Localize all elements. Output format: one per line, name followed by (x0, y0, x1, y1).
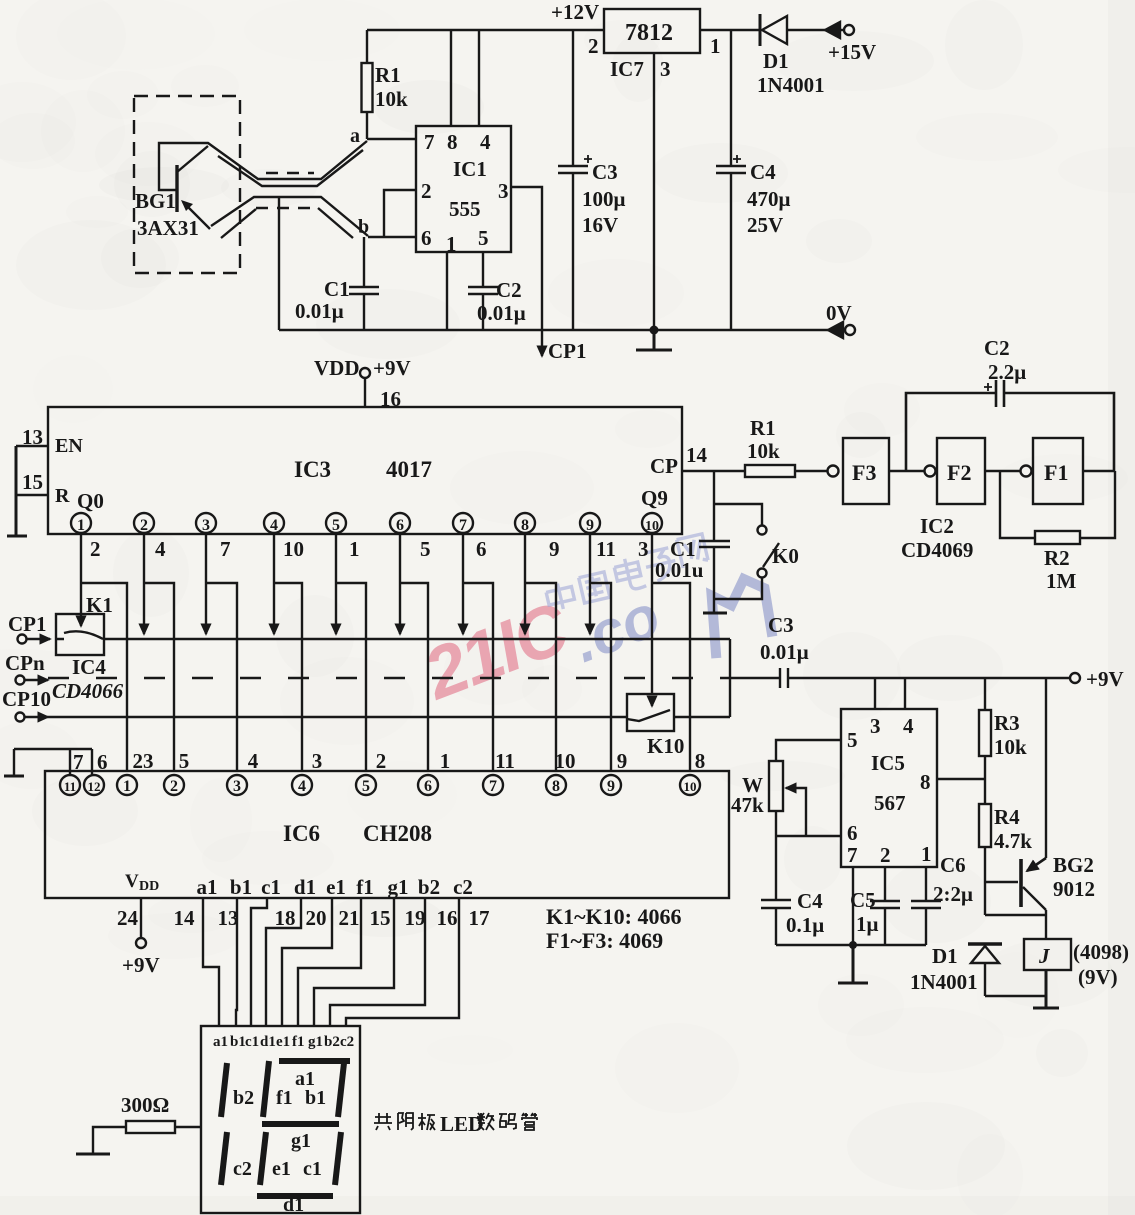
svg-text:IC2: IC2 (920, 514, 954, 538)
relay J (1024, 939, 1071, 970)
capacitor C1 0.01u (349, 237, 379, 330)
svg-text:F2: F2 (947, 460, 971, 485)
svg-text:10: 10 (283, 537, 304, 561)
terminal CPn (16, 676, 25, 685)
svg-text:10: 10 (645, 519, 659, 534)
svg-text:13: 13 (218, 906, 239, 930)
transistor BG1 symbol (175, 165, 178, 212)
svg-text:8: 8 (521, 517, 529, 534)
svg-text:2.2μ: 2.2μ (988, 360, 1026, 384)
svg-text:7812: 7812 (625, 20, 673, 46)
wires Q outputs to switches and CH208 (80, 533, 82, 619)
wire CP pin14 (682, 470, 745, 472)
inverter F2 (925, 466, 936, 477)
svg-text:g1: g1 (388, 875, 409, 899)
svg-text:3: 3 (233, 778, 241, 795)
svg-text:b1: b1 (230, 875, 252, 899)
svg-text:2: 2 (880, 843, 891, 867)
svg-text:2:2μ: 2:2μ (933, 882, 973, 906)
LED display box (201, 1026, 360, 1213)
segment b2 (221, 1063, 227, 1117)
svg-text:3: 3 (638, 537, 649, 561)
svg-text:0.01μ: 0.01μ (760, 640, 809, 664)
VDD pin 24 terminal +9V (140, 898, 142, 938)
segment e1 (260, 1132, 266, 1185)
svg-text:10k: 10k (747, 439, 780, 463)
capacitor C5 1u (870, 867, 900, 945)
ground (76, 1153, 110, 1156)
svg-text:+9V: +9V (373, 356, 411, 380)
svg-text:a: a (350, 125, 360, 147)
svg-text:CH208: CH208 (363, 821, 432, 846)
switch K1 box (IC4 CD4066) (56, 614, 104, 655)
svg-text:4: 4 (480, 130, 491, 154)
capacitor C3 100u 16V electrolytic (558, 30, 588, 330)
svg-text:C3: C3 (768, 613, 794, 637)
ground bracket pins 7 6 (14, 749, 92, 775)
terminal 0V (828, 322, 843, 338)
watermark 中国电子网 lavender (541, 534, 711, 612)
svg-text:7: 7 (847, 843, 858, 867)
svg-text:4: 4 (155, 537, 166, 561)
capacitor C4 470u 25V electrolytic (716, 30, 746, 330)
svg-text:567: 567 (874, 791, 906, 815)
svg-text:1: 1 (710, 34, 721, 58)
svg-text:1μ: 1μ (856, 912, 879, 936)
svg-text:4017: 4017 (386, 457, 432, 482)
svg-text:15: 15 (22, 470, 43, 494)
svg-text:10k: 10k (994, 735, 1027, 759)
svg-text:25V: 25V (747, 213, 783, 237)
wire pin8 (937, 778, 985, 780)
IC6 input pin circles (60, 775, 80, 795)
svg-text:1: 1 (921, 842, 932, 866)
svg-text:IC3: IC3 (294, 457, 331, 482)
IC3 output pin circles Q0-Q9 (71, 513, 91, 533)
svg-text:DD: DD (139, 879, 159, 894)
svg-text:J: J (1038, 944, 1051, 968)
segment g1 (262, 1121, 339, 1127)
svg-text:7: 7 (489, 778, 497, 795)
IC6 CH208 box (45, 771, 729, 898)
svg-text:C2: C2 (496, 278, 522, 302)
svg-text:0.01μ: 0.01μ (295, 299, 344, 323)
wire pin8 to +12V (450, 30, 452, 126)
svg-text:2: 2 (90, 537, 101, 561)
svg-text:a1: a1 (197, 875, 218, 899)
svg-text:1M: 1M (1046, 569, 1077, 593)
svg-text:2: 2 (588, 34, 599, 58)
svg-text:BG2: BG2 (1053, 853, 1094, 877)
svg-text:3: 3 (660, 57, 671, 81)
svg-text:d1: d1 (260, 1034, 276, 1050)
wire +12V top rail (367, 29, 604, 31)
segment d1 (257, 1193, 333, 1199)
svg-text:1N4001: 1N4001 (757, 73, 825, 97)
wire pin3 ground (653, 53, 655, 330)
svg-text:16: 16 (437, 906, 458, 930)
op-amp U1 IC1 555 timer box (416, 126, 511, 252)
svg-text:(9V): (9V) (1078, 965, 1118, 989)
svg-text:1N4001: 1N4001 (910, 970, 978, 994)
svg-text:7: 7 (73, 750, 84, 774)
svg-text:R: R (55, 485, 70, 507)
svg-text:5: 5 (847, 728, 858, 752)
svg-text:b2: b2 (324, 1034, 340, 1050)
svg-text:CD4066: CD4066 (52, 679, 124, 703)
svg-text:1: 1 (123, 778, 131, 795)
resistor R2 1M feedback (1000, 471, 1115, 538)
svg-text:f1: f1 (276, 1087, 293, 1109)
transistor Q BG1 3AX31 dashed probe box (134, 96, 240, 273)
inverter F3 (828, 466, 839, 477)
segment b1 (338, 1063, 344, 1117)
svg-text:11: 11 (64, 779, 76, 794)
svg-text:V: V (125, 871, 139, 892)
Chinese note: common-cathode LED digital display (374, 1112, 537, 1136)
svg-text:b1: b1 (230, 1034, 246, 1050)
svg-text:555: 555 (449, 197, 481, 221)
svg-text:9: 9 (549, 537, 560, 561)
svg-text:IC7: IC7 (610, 57, 644, 81)
svg-text:CP1: CP1 (8, 612, 47, 636)
svg-text:+9V: +9V (122, 953, 160, 977)
svg-text:e1: e1 (276, 1034, 290, 1050)
svg-text:R2: R2 (1044, 546, 1070, 570)
svg-text:47k: 47k (731, 793, 764, 817)
svg-text:1: 1 (349, 537, 360, 561)
svg-text:21: 21 (339, 906, 360, 930)
svg-text:16V: 16V (582, 213, 618, 237)
wire pin6 (776, 835, 841, 837)
svg-text:CPn: CPn (5, 651, 45, 675)
capacitor C3 0.01u coupling (735, 668, 1070, 688)
terminal CP1 (18, 635, 27, 644)
wire R4 to BG2 base (985, 881, 1018, 883)
wire cable pair to a (159, 141, 367, 190)
svg-text:d1: d1 (294, 875, 316, 899)
svg-text:12: 12 (88, 779, 101, 794)
transistor BG2 9012 (1019, 859, 1023, 907)
svg-text:3AX31: 3AX31 (137, 216, 199, 240)
capacitor C4 0.1u (761, 900, 791, 945)
svg-text:19: 19 (405, 906, 426, 930)
svg-text:5: 5 (332, 517, 340, 534)
svg-text:c1: c1 (245, 1034, 259, 1050)
svg-text:c2: c2 (340, 1034, 354, 1050)
wire pin7 (852, 867, 854, 945)
terminal +15V (825, 22, 840, 38)
svg-text:4.7k: 4.7k (994, 829, 1032, 853)
svg-text:C4: C4 (750, 160, 776, 184)
svg-text:18: 18 (275, 906, 296, 930)
svg-text:R1: R1 (750, 416, 776, 440)
svg-text:6: 6 (421, 226, 432, 250)
svg-text:23: 23 (133, 749, 154, 773)
resistor R4 4.7k (984, 779, 986, 882)
svg-text:IC4: IC4 (72, 655, 106, 679)
svg-text:e1: e1 (272, 1158, 291, 1180)
svg-text:K1: K1 (86, 593, 113, 617)
svg-text:g1: g1 (308, 1034, 323, 1050)
svg-text:Q0: Q0 (77, 489, 104, 513)
svg-text:7: 7 (220, 537, 231, 561)
svg-text:24: 24 (117, 906, 139, 930)
wire analog ground rail (776, 944, 926, 946)
svg-text:F3: F3 (852, 460, 876, 485)
svg-text:CD4069: CD4069 (901, 538, 973, 562)
svg-text:100μ: 100μ (582, 187, 626, 211)
svg-text:1: 1 (77, 517, 85, 534)
svg-text:D1: D1 (763, 49, 789, 73)
svg-text:0.01u: 0.01u (655, 558, 704, 582)
svg-text:6: 6 (97, 750, 108, 774)
svg-text:4: 4 (903, 714, 914, 738)
regulator IC7 7812 (604, 9, 700, 53)
svg-text:c1: c1 (261, 875, 281, 899)
svg-text:K0: K0 (772, 544, 799, 568)
switch K0 (714, 504, 762, 525)
ground (838, 945, 868, 983)
inverter F1 (1021, 466, 1032, 477)
wire 7812 out (700, 29, 760, 31)
diode D1 1N4001 (759, 14, 762, 46)
terminal CP10 (16, 713, 25, 722)
capacitor C1 0.01u on CP (699, 471, 730, 599)
resistor R3 10k (984, 678, 986, 779)
svg-text:R1: R1 (375, 63, 401, 87)
ground (636, 330, 672, 350)
segment c2 (221, 1132, 227, 1185)
svg-text:IC6: IC6 (283, 821, 320, 846)
svg-text:20: 20 (306, 906, 327, 930)
svg-text:C2: C2 (984, 336, 1010, 360)
terminal +9V right (1070, 673, 1080, 683)
svg-text:D1: D1 (932, 944, 958, 968)
svg-text:CP1: CP1 (548, 339, 587, 363)
svg-text:EN: EN (55, 435, 83, 457)
svg-text:16: 16 (380, 387, 401, 411)
svg-text:5: 5 (478, 226, 489, 250)
IC3 4017 box (48, 407, 682, 534)
svg-text:2: 2 (140, 517, 148, 534)
wire relay to ground (1033, 970, 1059, 1008)
svg-text:4: 4 (270, 517, 278, 534)
svg-text:17: 17 (469, 906, 490, 930)
svg-text:14: 14 (174, 906, 196, 930)
svg-text:2: 2 (421, 179, 432, 203)
svg-text:9012: 9012 (1053, 877, 1095, 901)
switch K10 box (627, 694, 674, 731)
svg-text:5: 5 (179, 749, 190, 773)
svg-text:9: 9 (607, 778, 615, 795)
svg-text:2: 2 (170, 778, 178, 795)
capacitor C2 2.2u feedback (906, 380, 1114, 471)
wire CP1-CP10 right link (729, 639, 731, 717)
wire pin3 output to CP1 (511, 187, 542, 356)
svg-text:+12V: +12V (551, 0, 599, 24)
svg-text:c2: c2 (233, 1158, 252, 1180)
svg-text:6: 6 (396, 517, 404, 534)
wire CP10 bus (48, 716, 627, 718)
svg-text:2: 2 (376, 749, 387, 773)
wire pin2 loop to pin6 (384, 190, 416, 237)
svg-text:d1: d1 (283, 1194, 304, 1215)
svg-text:1: 1 (440, 749, 451, 773)
svg-text:C4: C4 (797, 889, 823, 913)
svg-text:CP10: CP10 (2, 687, 51, 711)
svg-text:BG1: BG1 (135, 189, 176, 213)
svg-text:7: 7 (459, 517, 467, 534)
svg-text:8: 8 (447, 130, 458, 154)
svg-text:c1: c1 (303, 1158, 322, 1180)
svg-text:6: 6 (847, 821, 858, 845)
svg-text:C3: C3 (592, 160, 618, 184)
potentiometer W 47k (769, 761, 783, 811)
svg-text:14: 14 (686, 443, 708, 467)
svg-text:b1: b1 (305, 1087, 326, 1109)
resistor R1 10k (366, 30, 368, 139)
IC5 567 box (841, 709, 937, 867)
svg-text:+9V: +9V (1086, 667, 1124, 691)
svg-text:10: 10 (684, 779, 697, 794)
resistor R1 10k (clock) (745, 465, 795, 477)
svg-text:LED: LED (440, 1112, 483, 1136)
svg-text:R3: R3 (994, 711, 1020, 735)
svg-text:F1~F3: 4069: F1~F3: 4069 (546, 928, 663, 953)
svg-text:3: 3 (202, 517, 210, 534)
svg-text:0V: 0V (826, 301, 852, 325)
capacitor C2 0.01u (468, 252, 498, 330)
wire cable pair to b (211, 197, 368, 236)
svg-text:C5: C5 (850, 888, 876, 912)
svg-text:e1: e1 (326, 875, 346, 899)
wire pin1 to 0V (446, 252, 448, 330)
svg-text:CP: CP (650, 454, 678, 478)
diode D1 1N4001 flyback (985, 882, 1046, 915)
svg-text:IC5: IC5 (871, 751, 905, 775)
svg-text:13: 13 (22, 425, 43, 449)
wire CPn dashed bus (48, 677, 735, 679)
svg-text:0.1μ: 0.1μ (786, 913, 824, 937)
svg-text:5: 5 (420, 537, 431, 561)
svg-text:3: 3 (870, 714, 881, 738)
svg-text:9: 9 (617, 749, 628, 773)
svg-text:IC1: IC1 (453, 157, 487, 181)
svg-text:8: 8 (695, 749, 706, 773)
svg-text:10k: 10k (375, 87, 408, 111)
svg-text:0.01μ: 0.01μ (477, 301, 526, 325)
svg-text:6: 6 (476, 537, 487, 561)
svg-text:R4: R4 (994, 805, 1020, 829)
wire 0V bottom rail (279, 329, 845, 331)
wires staircase IC6 to LED display (203, 898, 219, 1026)
svg-text:3: 3 (498, 179, 509, 203)
wire pin3 pin4 stubs (875, 678, 905, 709)
svg-text:b2: b2 (418, 875, 440, 899)
svg-text:15: 15 (370, 906, 391, 930)
pin 15 R (16, 494, 48, 496)
svg-text:K10: K10 (647, 734, 684, 758)
svg-text:VDD: VDD (314, 356, 360, 380)
svg-text:11: 11 (596, 537, 616, 561)
resistor 300 ohm (93, 1127, 201, 1153)
wire CP1 bus (103, 638, 730, 640)
svg-text:(4098): (4098) (1073, 940, 1129, 964)
segment f1 (263, 1061, 269, 1117)
svg-text:7: 7 (424, 130, 435, 154)
wire cable shield to 0V (278, 198, 280, 330)
svg-text:g1: g1 (291, 1130, 311, 1152)
pin 13 EN (16, 445, 48, 447)
svg-text:5: 5 (362, 778, 370, 795)
svg-text:9: 9 (586, 517, 594, 534)
svg-text:C6: C6 (940, 853, 966, 877)
svg-text:K1~K10: 4066: K1~K10: 4066 (546, 904, 682, 929)
svg-text:f1: f1 (356, 875, 374, 899)
svg-text:F1: F1 (1044, 460, 1068, 485)
svg-text:c2: c2 (453, 875, 473, 899)
ground (703, 612, 727, 615)
svg-text:470μ: 470μ (747, 187, 791, 211)
svg-text:8: 8 (920, 770, 931, 794)
svg-text:Q9: Q9 (641, 486, 668, 510)
wire pin5 to pot (776, 740, 841, 761)
svg-text:10: 10 (555, 749, 576, 773)
svg-text:6: 6 (424, 778, 432, 795)
wire pin4 to +12V (478, 30, 480, 126)
VDD +9V terminal (364, 378, 366, 407)
svg-text:3: 3 (312, 749, 323, 773)
segment c1 (335, 1132, 341, 1185)
svg-text:4: 4 (298, 778, 306, 795)
svg-text:8: 8 (552, 778, 560, 795)
svg-text:f1: f1 (292, 1034, 305, 1050)
svg-text:C1: C1 (324, 277, 350, 301)
svg-text:b2: b2 (233, 1087, 254, 1109)
svg-text:+15V: +15V (828, 40, 876, 64)
svg-text:11: 11 (495, 749, 515, 773)
svg-text:300Ω: 300Ω (121, 1093, 169, 1117)
svg-text:a1: a1 (213, 1034, 228, 1050)
svg-text:4: 4 (248, 749, 259, 773)
wire node b to pin6 (368, 236, 416, 238)
capacitor C6 2.2u (911, 867, 941, 945)
segment a1 (279, 1058, 350, 1064)
ground for EN R (7, 446, 27, 536)
